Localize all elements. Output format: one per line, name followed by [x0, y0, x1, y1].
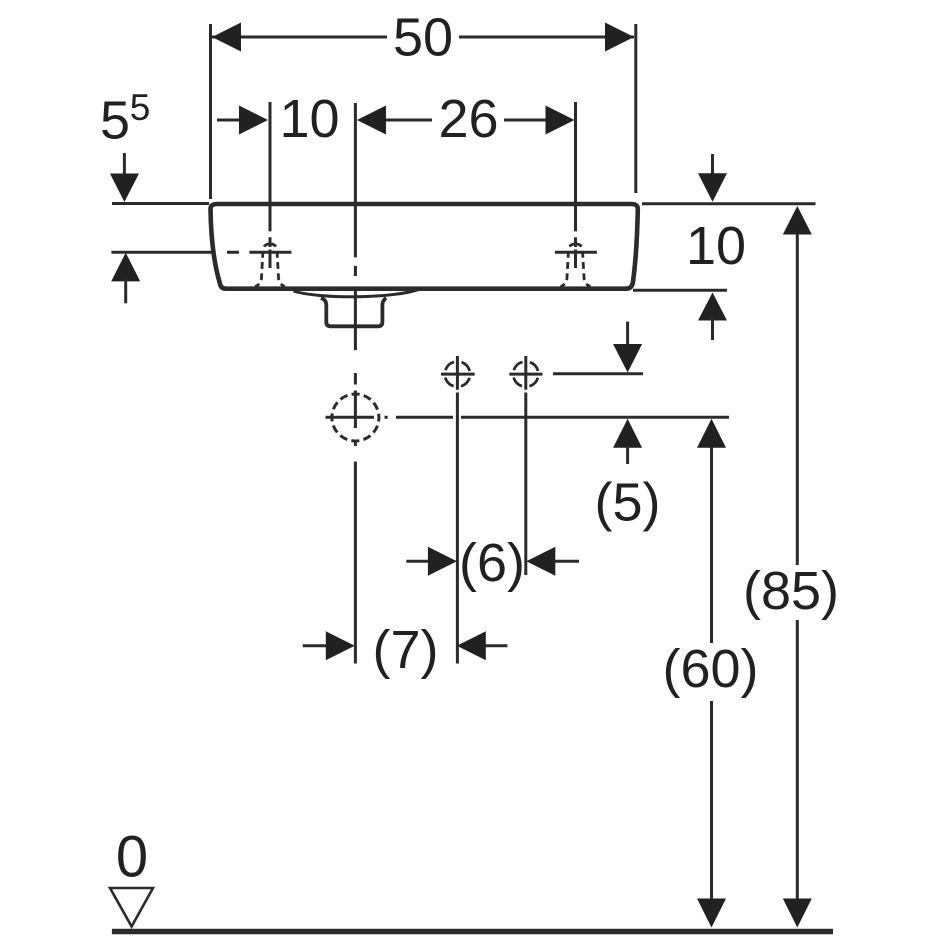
extension line 50 right [634, 24, 637, 193]
basin outline [211, 204, 638, 289]
arrow 50 right [605, 23, 634, 52]
drain circle cross horizontal [326, 416, 388, 419]
floor line [112, 929, 833, 935]
reference line rim right [642, 202, 816, 205]
fixing hole right cross [509, 373, 542, 376]
tap centerline right [574, 102, 577, 268]
reference line tap axis left [111, 251, 239, 254]
dimension (60) line [710, 445, 713, 900]
arrow up to tap axis left [111, 253, 140, 282]
svg-text:(5): (5) [595, 473, 661, 533]
arrow 10 right-pointing [239, 106, 268, 135]
fixing hole left cross [441, 373, 475, 376]
dimension (5) arrow up [613, 419, 642, 448]
arrow (60) top [697, 419, 726, 448]
dimension (6) left leader [406, 560, 429, 563]
arrow down to fixing hole line [626, 322, 629, 346]
tap axis cross left [249, 251, 291, 254]
tap centerline left [269, 102, 272, 268]
basin recess bowl [294, 289, 421, 297]
arrow (7) left [326, 631, 355, 660]
arrow 50 left [212, 23, 241, 52]
basin centerline [354, 103, 357, 664]
arrow down to rim right [711, 154, 714, 176]
tap axis cross right [555, 251, 597, 254]
extension line 50 left [209, 24, 212, 199]
arrow (6) left [428, 547, 457, 576]
svg-text:10: 10 [686, 216, 746, 276]
arrow (85) top [783, 206, 812, 235]
arrow (6) right [526, 547, 555, 576]
arrow 26 left [357, 106, 386, 135]
fixing hole right centerline [524, 356, 527, 575]
reference line fixing holes [553, 372, 643, 375]
svg-text:26: 26 [438, 89, 498, 149]
svg-text:10: 10 [279, 89, 339, 149]
fixing hole left centerline [456, 356, 459, 664]
drain stub [321, 298, 386, 326]
arrow (85) bottom [783, 899, 812, 928]
dimension (7) left leader [303, 644, 327, 647]
reference line rim left [112, 202, 209, 205]
dimension (6) right leader [555, 560, 580, 563]
svg-text:(85): (85) [743, 561, 839, 621]
svg-text:5: 5 [100, 91, 130, 151]
tap symbol right (dashed) [561, 244, 591, 287]
arrow (60) bottom [697, 899, 726, 928]
dimension (7) right leader [485, 644, 508, 647]
arrow (7) right [457, 631, 486, 660]
fixing hole left (dashed circle) [445, 362, 470, 387]
dimension 50 line [212, 36, 634, 39]
drain circle (dashed) [332, 394, 379, 441]
svg-text:(7): (7) [373, 620, 439, 680]
dimension 10 leader line [217, 119, 240, 122]
arrow 26 right [546, 106, 575, 135]
dimension 26 line [384, 119, 546, 122]
datum triangle [110, 888, 153, 927]
fixing hole right (dashed circle) [513, 362, 538, 387]
dimension (85) line [796, 234, 799, 900]
svg-text:50: 50 [393, 8, 453, 68]
arrow down to rim left [123, 153, 126, 176]
svg-text:(6): (6) [459, 533, 525, 593]
drain axis line [396, 416, 729, 419]
reference line basin bottom right [633, 289, 727, 292]
svg-text:0: 0 [116, 825, 148, 890]
svg-text:(60): (60) [662, 639, 758, 699]
tap symbol left (dashed) [255, 244, 285, 287]
svg-text:5: 5 [130, 87, 151, 128]
arrow up to basin bottom [698, 293, 727, 321]
